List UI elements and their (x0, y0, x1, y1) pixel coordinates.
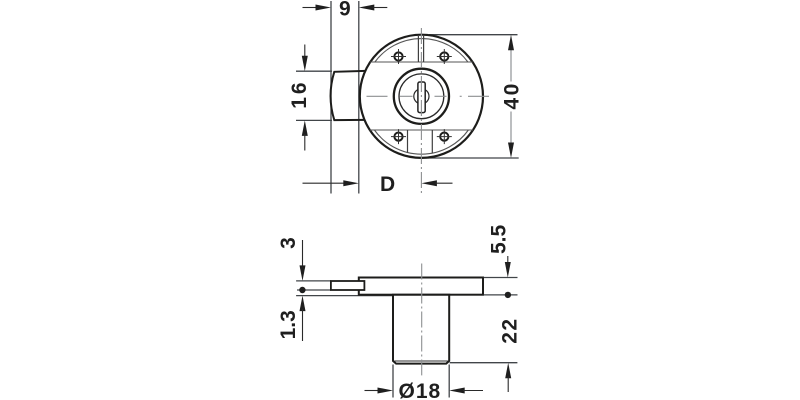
dimension D arrow right (421, 180, 437, 186)
reference dot left (299, 287, 305, 293)
cylinder ring outer (394, 69, 449, 124)
flange side tab (331, 71, 366, 120)
dimension 5.5 arrow (505, 262, 511, 278)
flange plate side view (359, 278, 483, 295)
extension line cylinder left down (Ø18) (392, 365, 394, 398)
flange inner arc top crescent (375, 39, 468, 62)
top notch line right (423, 35, 425, 62)
cylinder chamfer line (394, 360, 448, 362)
extension line tab top (16 dim) (296, 70, 332, 72)
key slot (418, 82, 425, 113)
svg-text:16: 16 (288, 79, 311, 108)
dimension 16 tail bottom (304, 134, 306, 151)
vertical centerline top view (420, 28, 422, 194)
dimension 40 line lower (510, 112, 512, 147)
flange chord line top (370, 61, 472, 63)
dimension D tail right (435, 182, 452, 184)
dimension 22 arrow (505, 363, 511, 379)
svg-text:3: 3 (277, 237, 300, 249)
dimension 40 arrow down (508, 143, 514, 159)
dimension 9 arrow left (316, 5, 332, 11)
extension line right of 9 dim / left of D dim (358, 1, 360, 194)
dimension Ø18 tail right (463, 390, 483, 392)
reference dot right (505, 292, 511, 298)
dimension D arrow left (343, 180, 359, 186)
screw hole top-right (437, 49, 452, 64)
dimension 16 arrow top (302, 56, 308, 71)
vertical centerline side view (421, 264, 423, 376)
top notch line left (417, 35, 419, 62)
flange chord line bottom (370, 129, 473, 131)
extension line cylinder bottom right (22 dim) (450, 362, 518, 364)
dimension 40 line upper (510, 47, 512, 82)
latch bolt side view (331, 281, 365, 290)
dimension 9 arrow right (359, 5, 375, 11)
dimension 1.3 line (302, 309, 304, 341)
cylinder ring inner (399, 74, 444, 119)
svg-text:40: 40 (501, 81, 524, 109)
reference line plate bottom right with dot (484, 294, 518, 296)
cylinder body side view (393, 295, 449, 364)
extension line tab bottom (16 dim) (296, 119, 332, 121)
bottom cam line left (407, 130, 409, 153)
dimension 9 tail left (303, 7, 319, 9)
extension line cylinder right down (Ø18) (448, 365, 450, 398)
dimension Ø18 arrow left (378, 388, 394, 394)
svg-text:9: 9 (339, 0, 351, 20)
dimension Ø18 tail left (365, 390, 381, 392)
horizontal centerline segments top view (367, 95, 490, 97)
lock outer flange circle (360, 35, 483, 158)
dimension 22 tail (507, 376, 509, 392)
svg-text:22: 22 (499, 317, 522, 343)
extension line plate top right (5.5 dim) (484, 277, 518, 279)
dimension 16 arrow bottom (302, 120, 308, 135)
bottom cam line right (431, 130, 433, 153)
dimension 1.3 arrow (300, 296, 306, 312)
extension line 40 top (429, 34, 518, 36)
cylinder plug circle (414, 89, 429, 104)
svg-text:D: D (380, 173, 395, 196)
extension line 40 bottom (428, 157, 519, 159)
extension line bolt top (3 dim) (296, 280, 331, 282)
dimension Ø18 arrow right (449, 388, 465, 394)
svg-text:5.5: 5.5 (488, 224, 511, 254)
dimension 40 arrow up (508, 35, 514, 51)
extension line plate bottom left (1.3 dim) (296, 295, 393, 297)
svg-text:Ø18: Ø18 (399, 380, 442, 400)
dimension 16 tail top (304, 45, 306, 59)
reference line bolt bottom with dot (297, 289, 331, 291)
screw hole bottom-left (391, 129, 406, 144)
dimension 5.5 line (507, 256, 509, 265)
dimension 9 tail right (373, 7, 388, 9)
screw hole top-left (391, 49, 406, 64)
dimension 3 arrow (300, 265, 306, 281)
dimension 3 line (302, 240, 304, 268)
dimension D tail left (303, 182, 346, 184)
extension line left of 9 dim (330, 1, 332, 194)
flange inner arc bottom crescent (374, 130, 468, 154)
svg-text:1.3: 1.3 (277, 310, 300, 339)
screw hole bottom-right (437, 129, 452, 144)
